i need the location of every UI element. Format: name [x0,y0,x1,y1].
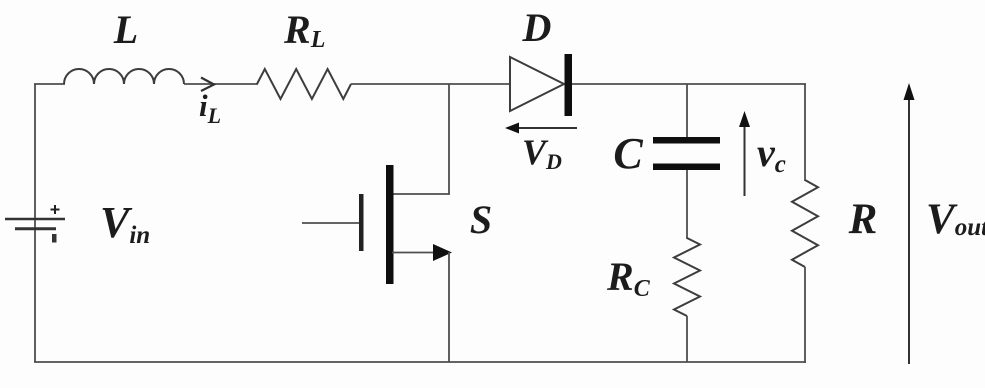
svg-text:S: S [470,197,492,242]
arrow head of inductor current iL [201,78,214,92]
wire: left vertical from top wire to bottom wire [34,84,36,362]
label D [522,5,552,50]
arrow VD (pointing left under diode) [505,123,577,134]
wire: source vertical down to bottom rail [448,252,450,362]
diode D triangle (anode) [510,57,564,111]
wire: top rail resistor RL to diode anode [351,83,510,85]
inductor L (4 humps) [64,69,184,84]
arrow vc (pointing up) [739,111,750,196]
label VD [522,132,562,174]
wire: gate lead [302,222,359,224]
wire: drain vertical from top rail down to MOSFET [448,84,450,194]
battery Vin plate short (-) [15,227,56,230]
transistor S channel bar [386,165,394,284]
svg-text:D: D [522,5,552,50]
transistor S gate bar [359,194,364,251]
wire: top rail segment left of inductor [34,83,65,85]
label S [470,197,492,242]
label RL [283,7,325,53]
wire: MOSFET drain horizontal [392,193,450,195]
resistor R zigzag [792,180,818,267]
arrow Vout (tall, pointing up) [904,83,915,364]
label iL [199,88,221,128]
wire: capacitor bottom plate to resistor RC [686,170,688,239]
wire: resistor RC to bottom rail [686,316,688,362]
battery Vin plate long (+) [5,218,65,221]
wire: top rail inductor to resistor RL [184,83,258,85]
svg-text:L: L [113,7,138,52]
label vc [757,130,786,178]
wire: MOSFET source horizontal with arrow [392,244,452,261]
svg-text:C: C [613,129,643,178]
svg-text:R: R [848,196,878,243]
label RC [606,254,651,302]
capacitor C bottom plate [653,164,720,171]
capacitor C top plate [653,137,720,144]
wire: capacitor branch vertical from top rail to top plate [686,84,688,139]
resistor RL zigzag [257,69,351,99]
wire: top rail diode cathode to right corner [572,83,806,85]
wire: right branch vertical from top rail to resistor R [804,84,806,181]
label Vin [100,198,150,249]
label C [613,129,643,178]
wire: bottom rail [34,361,806,363]
resistor RC zigzag [674,238,700,316]
label R [848,196,878,243]
label L [113,7,138,52]
diode D cathode bar [565,54,573,116]
battery plus sign [51,205,60,214]
wire: resistor R to bottom rail [804,267,806,363]
battery minus mark [52,234,57,243]
label Vout [926,196,985,243]
